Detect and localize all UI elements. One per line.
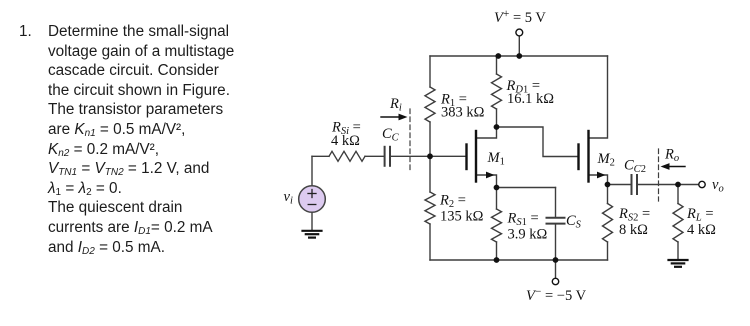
wire V+ drop	[518, 36, 520, 56]
wire RSi to CC	[365, 155, 384, 157]
svg-text:vi: vi	[284, 189, 293, 207]
wire R1 bottom	[429, 122, 431, 156]
transistor M1	[467, 131, 477, 182]
wire RD1 bottom	[496, 109, 498, 127]
wire RD1 top	[496, 56, 498, 74]
transistor M2 source wire	[589, 175, 608, 185]
transistor M1 source wire	[476, 175, 497, 188]
M2 source arrow	[597, 172, 606, 179]
wire RL top	[677, 185, 679, 204]
svg-text:383 kΩ: 383 kΩ	[441, 105, 485, 121]
resistor RD1	[492, 74, 502, 109]
capacitor CC	[384, 147, 386, 166]
wire RS2 bottom	[607, 242, 609, 260]
svg-text:Ro: Ro	[664, 147, 679, 165]
wire RS2 top	[607, 185, 609, 204]
wire input left segment	[312, 155, 329, 157]
wire RL bottom	[677, 242, 679, 259]
transistor M2	[579, 131, 589, 182]
ground (vi)	[303, 231, 322, 238]
resistor RS1	[492, 209, 502, 242]
resistor RS2	[603, 204, 613, 243]
svg-text:4 kΩ: 4 kΩ	[331, 133, 360, 149]
svg-text:3.9 kΩ: 3.9 kΩ	[508, 227, 548, 243]
transistor M1 drain wire	[476, 127, 497, 138]
svg-text:vo: vo	[712, 177, 724, 195]
wire CS top	[555, 188, 557, 218]
wire RS1 top	[496, 188, 498, 210]
resistor RL	[673, 204, 683, 243]
capacitor CS	[547, 217, 565, 219]
capacitor CC2	[631, 175, 633, 194]
terminal vo	[699, 181, 705, 187]
transistor M2 drain wire	[589, 56, 608, 138]
ground (RL)	[669, 260, 688, 267]
wire CC to node A	[390, 155, 430, 157]
node dot M1 source	[494, 185, 500, 191]
svg-text:4 kΩ: 4 kΩ	[687, 222, 716, 238]
node dot top rail RD1	[495, 53, 501, 59]
svg-text:16.1 kΩ: 16.1 kΩ	[507, 91, 554, 107]
wire R2 top	[429, 156, 431, 192]
node dot RS1 bottom rail	[494, 257, 500, 263]
resistor R2	[425, 192, 435, 224]
node dot M2 source	[605, 182, 611, 188]
arrow Ri	[381, 114, 408, 121]
svg-text:R2 =: R2 =	[439, 193, 466, 211]
svg-text:V− = −5 V: V− = −5 V	[526, 286, 587, 304]
M1 source arrow	[486, 172, 495, 179]
terminal V-	[552, 278, 558, 284]
wire M1 drain to M2 gate	[497, 127, 578, 157]
node dot output/RL	[675, 182, 681, 188]
wire vi to input line	[311, 156, 313, 186]
svg-text:RL =: RL =	[686, 206, 714, 224]
wire vi to ground	[311, 212, 313, 229]
svg-text:CC2: CC2	[624, 158, 646, 176]
resistor R1	[425, 87, 435, 122]
svg-text:V+ = 5 V: V+ = 5 V	[494, 8, 546, 26]
wire node A to M1 gate	[430, 155, 465, 157]
wire RS1 bottom	[496, 242, 498, 260]
node dot top rail V+	[516, 53, 522, 59]
svg-text:Ri: Ri	[389, 96, 402, 114]
arrow Ro	[661, 163, 686, 170]
wire bottom rail	[430, 259, 608, 261]
dashed line Ro	[658, 149, 660, 201]
wire output node to vo terminal	[678, 184, 699, 186]
wire CC2 to output node	[637, 184, 678, 186]
wire CS bottom	[555, 224, 557, 260]
svg-text:CC: CC	[382, 126, 400, 144]
terminal V+	[516, 29, 523, 36]
dashed line Ri	[409, 109, 411, 170]
wire M1 source to CS	[497, 187, 556, 189]
svg-text:RS2 =: RS2 =	[618, 206, 650, 224]
node dot CS bottom rail	[553, 257, 559, 263]
node A dot (input)	[427, 153, 433, 159]
node dot M1 drain	[494, 124, 500, 130]
wire V- drop	[555, 260, 557, 278]
voltage source vi	[299, 186, 326, 213]
svg-text:135 kΩ: 135 kΩ	[440, 209, 484, 225]
problem statement text	[19, 22, 254, 257]
svg-text:M2: M2	[597, 151, 615, 169]
wire R2 bottom	[429, 224, 431, 260]
wire M2 source to CC2	[608, 184, 632, 186]
wire top rail	[430, 55, 608, 57]
svg-text:M1: M1	[487, 150, 505, 168]
wire R1 branch top	[429, 56, 431, 87]
resistor RSi	[329, 151, 365, 161]
svg-text:8 kΩ: 8 kΩ	[619, 222, 648, 238]
svg-text:CS: CS	[566, 213, 582, 231]
svg-text:RS1 =: RS1 =	[507, 211, 539, 229]
